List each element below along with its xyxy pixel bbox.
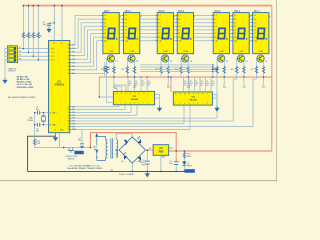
ground for C6 (46, 27, 51, 33)
IC1 microcontroller AT89C51 (49, 41, 70, 133)
svg-text:DIS 4: DIS 4 (178, 10, 185, 13)
capacitor C6 at Vcc (43, 22, 55, 27)
junction dots data lines (127, 64, 213, 78)
wire bridge - to ground bus (131, 163, 133, 171)
IC4 driver (173, 92, 212, 105)
svg-text:P2.3: P2.3 (72, 115, 75, 117)
svg-text:P0.2: P0.2 (72, 52, 75, 54)
wire T1 emitter tail (263, 74, 265, 85)
wire T4 emitter tail (187, 74, 189, 85)
svg-text:P1.0: P1.0 (113, 87, 116, 89)
svg-text:P0.4: P0.4 (72, 59, 75, 61)
svg-text:P2.7: P2.7 (201, 83, 204, 85)
resistor R19 horizontal (214, 68, 218, 71)
IC1 pin labels right lower P2.x (72, 106, 77, 131)
svg-text:LED1: LED1 (187, 165, 192, 167)
IC1 Vcc and EA top pins (53, 6, 63, 45)
IC1 pin labels right upper P0.x (72, 45, 75, 75)
svg-text:22: 22 (68, 109, 70, 111)
wire secondary to bridge (116, 134, 132, 158)
svg-text:35: 35 (68, 59, 70, 61)
+5V rail mid (display anode rail) (99, 76, 272, 78)
svg-text:40: 40 (53, 43, 55, 45)
pull-up resistor R1 (22, 6, 27, 49)
+5V drop to IC3 (98, 77, 100, 97)
svg-text:P1.0: P1.0 (52, 48, 55, 50)
ground symbol main (145, 171, 150, 177)
svg-text:25: 25 (68, 118, 70, 120)
reset circuit wire (60, 147, 91, 149)
+5V drop to IC4 (170, 77, 172, 92)
svg-text:74LS47: 74LS47 (131, 98, 139, 101)
svg-text:P0.7: P0.7 (72, 70, 75, 72)
svg-text:IC1: IC1 (148, 85, 151, 87)
svg-text:21: 21 (68, 106, 70, 108)
svg-text:S3: S3 (19, 55, 21, 57)
svg-text:IC1: IC1 (206, 85, 209, 87)
pull-up resistor R2 (27, 6, 32, 53)
power supply section (93, 134, 106, 161)
EFY tag box reset (74, 151, 84, 155)
svg-text:R16: R16 (231, 69, 234, 71)
svg-text:S4: S4 (19, 59, 21, 61)
transistor T4 (180, 53, 193, 74)
svg-text:P2.0: P2.0 (129, 83, 132, 85)
svg-text:S2: S2 (19, 51, 21, 53)
svg-text:23: 23 (68, 112, 70, 114)
svg-text:DIS1-DIS6 = LT543: DIS1-DIS6 = LT543 (17, 86, 34, 89)
svg-text:P1.3: P1.3 (52, 60, 55, 62)
svg-text:74LS47: 74LS47 (189, 99, 197, 102)
svg-text:P0.1: P0.1 (72, 48, 75, 50)
display DIS 6 (122, 13, 141, 54)
capacitor C9 0.1u (169, 151, 179, 171)
svg-text:R17: R17 (251, 69, 254, 71)
+5V rail right side (271, 6, 273, 151)
IC1 XTAL pins (47, 113, 49, 125)
transistor T3 (216, 53, 229, 74)
capacitor C2 (35, 112, 49, 114)
svg-text:20: 20 (54, 130, 56, 132)
svg-text:P1.4: P1.4 (223, 87, 226, 89)
IC3 right pins to ground (155, 95, 162, 112)
wire T5 emitter tail (167, 74, 169, 85)
svg-text:P0.0: P0.0 (72, 45, 75, 47)
regulator IC2 7805 (149, 145, 174, 159)
crystal XTAL 12MHz (27, 113, 45, 125)
svg-text:P0.6: P0.6 (206, 83, 209, 85)
IC4 pin numbers (175, 94, 208, 105)
svg-text:IC1: IC1 (212, 85, 215, 87)
svg-text:P1.1: P1.1 (133, 87, 136, 89)
transformer X1 (106, 138, 118, 172)
wire staircase from IC1 port pins to segment bus (71, 16, 97, 70)
+5V wire to IC1 Vcc (91, 133, 177, 151)
wire crystal caps common to ground bus (35, 113, 60, 148)
display DIS 5 (156, 13, 176, 54)
wire regulator GND (160, 155, 162, 171)
svg-text:R11: R11 (101, 69, 104, 71)
svg-text:P1.2: P1.2 (52, 56, 55, 58)
svg-text:R4: R4 (40, 36, 42, 38)
svg-text:P1.6: P1.6 (262, 87, 265, 89)
border right (275, 0, 277, 182)
transistor emitter end labels (113, 85, 266, 89)
bridge rectifier D1-D4 (119, 136, 145, 163)
display DIS 4 (176, 13, 196, 54)
svg-text:P2.1: P2.1 (135, 83, 138, 85)
svg-text:P2.4: P2.4 (184, 83, 187, 85)
svg-text:27: 27 (68, 123, 70, 125)
svg-text:X1 = 230V AC PRIMARY TO 7.5V,: X1 = 230V AC PRIMARY TO 7.5V, (69, 164, 100, 167)
svg-text:SWITCH: SWITCH (68, 158, 76, 160)
IC4 right pins to ground (212, 95, 219, 112)
svg-text:DIS 2: DIS 2 (234, 10, 241, 13)
svg-text:R13: R13 (155, 69, 158, 71)
svg-text:10µ: 10µ (78, 140, 81, 142)
IC1 pin numbers right lower (68, 106, 70, 131)
svg-text:100Ω: 100Ω (187, 156, 192, 158)
ground for DIP switch (2, 49, 8, 84)
wire T3 emitter tail (223, 74, 225, 85)
svg-text:DIS 7: DIS 7 (104, 10, 111, 13)
IC3 pin numbers (116, 93, 149, 104)
svg-text:P2.6: P2.6 (72, 123, 75, 125)
svg-text:DIS 3: DIS 3 (214, 10, 221, 13)
svg-text:R12: R12 (122, 69, 125, 71)
wire bus from IC1 P2 pins to drivers (71, 104, 253, 129)
svg-text:IC1: IC1 (129, 85, 132, 87)
transistor T7 (105, 53, 118, 74)
push-to-on switch (66, 148, 78, 161)
svg-text:EFY-08: EFY-08 (187, 171, 193, 173)
IC4 input wire labels (184, 81, 215, 87)
IC4 top pin stubs with input labels (184, 77, 212, 92)
svg-text:34: 34 (68, 62, 70, 64)
wire group display data lines (140, 65, 213, 77)
svg-text:P2.0: P2.0 (72, 106, 75, 108)
svg-text:(ALL RESISTORS ARE 1/4-WATT): (ALL RESISTORS ARE 1/4-WATT) (8, 96, 36, 99)
capacitor C7 on reset (78, 130, 84, 148)
switch labels S1-S4 (19, 47, 21, 60)
svg-text:AT89C51: AT89C51 (54, 84, 64, 87)
svg-text:P2.3: P2.3 (148, 83, 151, 85)
svg-text:P2.2: P2.2 (72, 112, 75, 114)
svg-text:300mA SECONDARY TRANSFORMER: 300mA SECONDARY TRANSFORMER (67, 167, 103, 170)
svg-text:D3: D3 (121, 161, 123, 163)
IC1 pin stubs left P1 (47, 49, 49, 60)
svg-text:P0.7: P0.7 (212, 83, 215, 85)
IC3 driver (113, 91, 154, 104)
wire bridge + to regulator (146, 149, 154, 151)
svg-text:D1-D4 = 1N4007: D1-D4 = 1N4007 (119, 174, 135, 176)
transistor T1 (255, 53, 268, 74)
wire T3 base to IC1 (216, 74, 218, 119)
svg-text:P2.1: P2.1 (72, 109, 75, 111)
display DIS 1 (251, 13, 271, 54)
wire T2 emitter tail (243, 74, 245, 85)
svg-text:P1.5: P1.5 (243, 87, 246, 89)
svg-text:32: 32 (68, 70, 70, 72)
svg-text:D1: D1 (124, 139, 126, 141)
svg-text:37: 37 (68, 52, 70, 54)
svg-text:39: 39 (68, 45, 70, 47)
svg-text:10µ: 10µ (43, 24, 46, 26)
capacitor C8 1000u (140, 150, 150, 171)
transistor T2 (235, 53, 248, 74)
resistor R18 in ground leg (33, 139, 41, 145)
svg-text:P0.5: P0.5 (72, 62, 75, 64)
svg-text:GND: GND (161, 156, 166, 158)
pull-up resistor R3 (32, 6, 37, 57)
svg-text:IC1: IC1 (135, 85, 138, 87)
svg-text:P2.5: P2.5 (190, 83, 193, 85)
svg-text:P0.3: P0.3 (72, 55, 75, 57)
capacitor C3 (35, 124, 49, 126)
svg-text:IC1: IC1 (142, 85, 145, 87)
svg-text:R1-R4 = 10K: R1-R4 = 10K (17, 75, 29, 78)
wire T2 base to IC1 (233, 74, 237, 121)
svg-text:D2: D2 (139, 139, 141, 141)
EFY tag box power (185, 169, 195, 173)
svg-text:P1.2: P1.2 (167, 87, 170, 89)
svg-text:DIS 6: DIS 6 (125, 10, 132, 13)
wire IC1 pin to resistor R10 column (71, 62, 105, 77)
svg-text:S1: S1 (19, 47, 21, 49)
svg-text:P2.4: P2.4 (72, 118, 75, 120)
svg-text:0.1µ: 0.1µ (169, 163, 173, 165)
svg-text:DIS 1: DIS 1 (254, 10, 261, 13)
IC1 GND pin 20 and ground (53, 130, 64, 142)
svg-text:R1: R1 (25, 36, 27, 38)
svg-text:R14: R14 (175, 69, 178, 71)
IC1 pin numbers left P1 (49, 48, 55, 61)
segment bus wires a-dp (75, 16, 253, 41)
svg-text:IC1: IC1 (190, 85, 193, 87)
svg-text:IC1: IC1 (201, 85, 204, 87)
svg-text:12MHz: 12MHz (27, 120, 33, 122)
svg-text:30: 30 (68, 73, 70, 75)
ground bus 0V line (28, 170, 190, 172)
svg-text:7805: 7805 (158, 151, 164, 153)
mains input arrows 230V AC (96, 134, 106, 161)
svg-text:P1.1: P1.1 (52, 52, 55, 54)
DIP switch bank S1-S4 (8, 46, 18, 73)
svg-text:P2.5: P2.5 (72, 121, 75, 123)
border bottom (0, 180, 277, 182)
svg-text:36: 36 (68, 55, 70, 57)
IC1 pin numbers right upper (68, 45, 70, 75)
svg-text:31: 31 (61, 43, 63, 45)
svg-text:28: 28 (68, 126, 70, 128)
transistor T5 (160, 53, 173, 74)
svg-text:26: 26 (68, 121, 70, 123)
svg-text:P2.2: P2.2 (142, 83, 145, 85)
IC3 top pin stubs with input labels (114, 77, 147, 92)
notes block (17, 75, 34, 88)
wire T7 emitter tail (113, 74, 115, 85)
svg-text:P2.7: P2.7 (72, 126, 75, 128)
svg-text:SWITCH: SWITCH (8, 71, 16, 73)
resistor R10 (104, 66, 112, 72)
svg-text:24: 24 (68, 115, 70, 117)
svg-text:P0.6: P0.6 (72, 66, 75, 68)
IC1 pin stubs right upper (70, 45, 72, 73)
switch bank wires to IC1 (18, 49, 49, 60)
svg-text:R2: R2 (30, 36, 32, 38)
svg-text:P1.3: P1.3 (187, 87, 190, 89)
transistor resistor labels (101, 69, 254, 71)
IC3 input wire labels (129, 81, 151, 87)
wire T6 emitter tail (134, 74, 136, 85)
svg-text:19: 19 (49, 112, 51, 114)
wire T1 base to IC1 (253, 74, 256, 127)
svg-text:29: 29 (68, 129, 70, 131)
svg-text:R3: R3 (35, 36, 37, 38)
crystal oscillator XTAL (35, 107, 49, 115)
svg-text:EFY-08: EFY-08 (76, 153, 82, 155)
wire T6 base to rail (126, 74, 128, 78)
resistor R17 for LED (183, 151, 191, 162)
wire T7 base to IC3 (107, 74, 114, 103)
transistor T6 (126, 53, 139, 74)
+5V wire from regulator output (169, 150, 272, 152)
+5V rail top (23, 5, 271, 7)
svg-text:33p: 33p (36, 131, 39, 133)
svg-text:P2.6: P2.6 (195, 83, 198, 85)
display DIS 2 (231, 13, 251, 54)
pull-up resistor R4 (37, 6, 42, 60)
LED1 power indicator (182, 162, 192, 172)
display DIS 7 (101, 13, 121, 54)
svg-text:18: 18 (49, 124, 51, 126)
svg-text:R15: R15 (211, 69, 214, 71)
display DIS 3 (212, 13, 232, 54)
wire T5 base to rail (160, 74, 162, 78)
IC1 pin stubs right lower (70, 107, 72, 130)
svg-text:DIS 5: DIS 5 (158, 10, 165, 13)
wire IC1 RST pin 9 down (59, 133, 61, 148)
wire T4 base to rail (180, 74, 182, 78)
svg-text:33p: 33p (36, 109, 39, 111)
svg-text:IC1: IC1 (195, 85, 198, 87)
svg-text:38: 38 (68, 48, 70, 50)
svg-text:33: 33 (68, 66, 70, 68)
